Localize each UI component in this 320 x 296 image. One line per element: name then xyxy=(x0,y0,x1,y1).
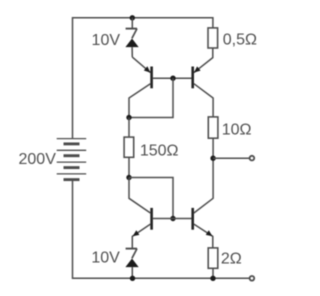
svg-text:2Ω: 2Ω xyxy=(221,250,242,267)
transistor Q1 (PNP, top-left) xyxy=(129,66,173,117)
wire left rail bottom xyxy=(73,180,252,279)
node zener bottom rail junction xyxy=(130,276,135,281)
node top rail zener junction xyxy=(130,15,135,20)
label 10V (top zener) xyxy=(92,32,121,49)
node common base bottom xyxy=(170,216,175,221)
wire 10Ω bottom lead xyxy=(212,138,214,158)
svg-text:10V: 10V xyxy=(91,249,120,266)
svg-text:10V: 10V xyxy=(92,32,121,49)
label 10Ω xyxy=(222,122,252,139)
wire 2Ω bottom lead xyxy=(212,268,214,278)
wire Q1 emitter lead xyxy=(132,57,150,73)
svg-text:0,5Ω: 0,5Ω xyxy=(223,32,257,49)
zener diode D1 10V xyxy=(125,18,138,57)
transistor Q3 (NPN, bottom-left) xyxy=(129,178,173,249)
resistor 150Ω xyxy=(124,137,134,157)
transistor Q4 (NPN, bottom-right) xyxy=(173,158,213,248)
svg-text:150Ω: 150Ω xyxy=(140,142,179,159)
wire top rail xyxy=(73,18,213,139)
node Q1 collector junction xyxy=(126,115,131,120)
wire 150Ω top lead xyxy=(128,118,130,138)
resistor 2Ω xyxy=(208,248,218,268)
resistor 0,5Ω xyxy=(208,28,218,48)
node output mid junction xyxy=(210,156,215,161)
node 150Ω bottom junction xyxy=(126,175,131,180)
terminal output upper xyxy=(250,156,255,161)
svg-text:10Ω: 10Ω xyxy=(222,122,252,139)
battery 200V xyxy=(57,139,86,180)
wire output stub xyxy=(213,157,250,159)
label 10V (bottom zener) xyxy=(91,249,120,266)
node common base top xyxy=(170,76,175,81)
resistor 10Ω xyxy=(208,117,218,138)
label 2Ω xyxy=(221,250,242,267)
node 2Ω bottom rail junction xyxy=(210,276,215,281)
wire base to collector tie (top) xyxy=(129,78,173,117)
svg-text:200V: 200V xyxy=(19,151,57,168)
label 200V xyxy=(19,151,57,168)
wire 150Ω bottom lead xyxy=(128,157,130,177)
zener diode D2 10V (bottom) xyxy=(125,249,138,279)
label 0,5Ω xyxy=(223,32,257,49)
terminal output lower xyxy=(250,276,255,281)
transistor Q2 (PNP, top-right) xyxy=(173,66,213,117)
label 150Ω xyxy=(140,142,179,159)
wire base to collector tie (bottom) xyxy=(129,178,173,219)
wire Q2 emitter lead xyxy=(194,48,213,73)
